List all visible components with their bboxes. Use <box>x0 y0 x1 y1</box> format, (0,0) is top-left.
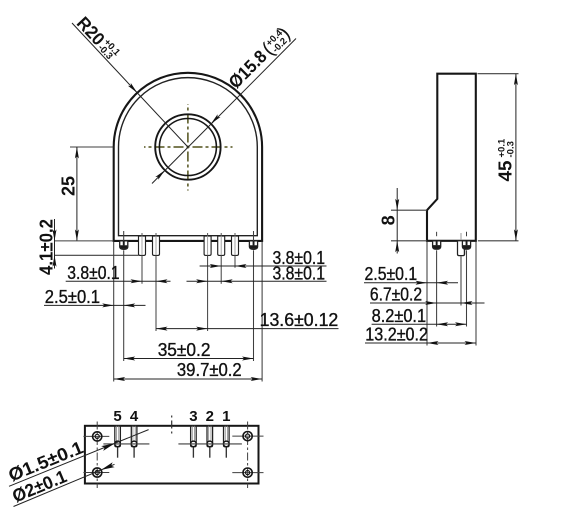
svg-text:13.2±0.2: 13.2±0.2 <box>365 325 428 345</box>
svg-text:39.7±0.2: 39.7±0.2 <box>177 360 242 380</box>
svg-text:5: 5 <box>113 408 121 425</box>
svg-text:1: 1 <box>222 408 230 425</box>
svg-text:6.7±0.2: 6.7±0.2 <box>370 285 422 305</box>
svg-text:35±0.2: 35±0.2 <box>158 340 211 360</box>
svg-text:3: 3 <box>189 408 197 425</box>
svg-text:2.5±0.1: 2.5±0.1 <box>365 264 418 284</box>
svg-text:3.8±0.1: 3.8±0.1 <box>273 248 326 268</box>
svg-text:25: 25 <box>59 176 79 196</box>
svg-text:-0.3: -0.3 <box>505 141 516 157</box>
svg-text:2.5±0.1: 2.5±0.1 <box>45 287 100 307</box>
svg-text:45: 45 <box>495 161 515 182</box>
svg-text:4: 4 <box>130 408 139 425</box>
svg-text:4.1±0.2: 4.1±0.2 <box>37 219 57 275</box>
svg-text:8: 8 <box>379 215 399 225</box>
svg-text:8.2±0.1: 8.2±0.1 <box>372 306 427 326</box>
svg-text:13.6±0.12: 13.6±0.12 <box>260 310 339 330</box>
svg-text:3.8±0.1: 3.8±0.1 <box>67 263 119 283</box>
svg-text:2: 2 <box>206 408 214 425</box>
